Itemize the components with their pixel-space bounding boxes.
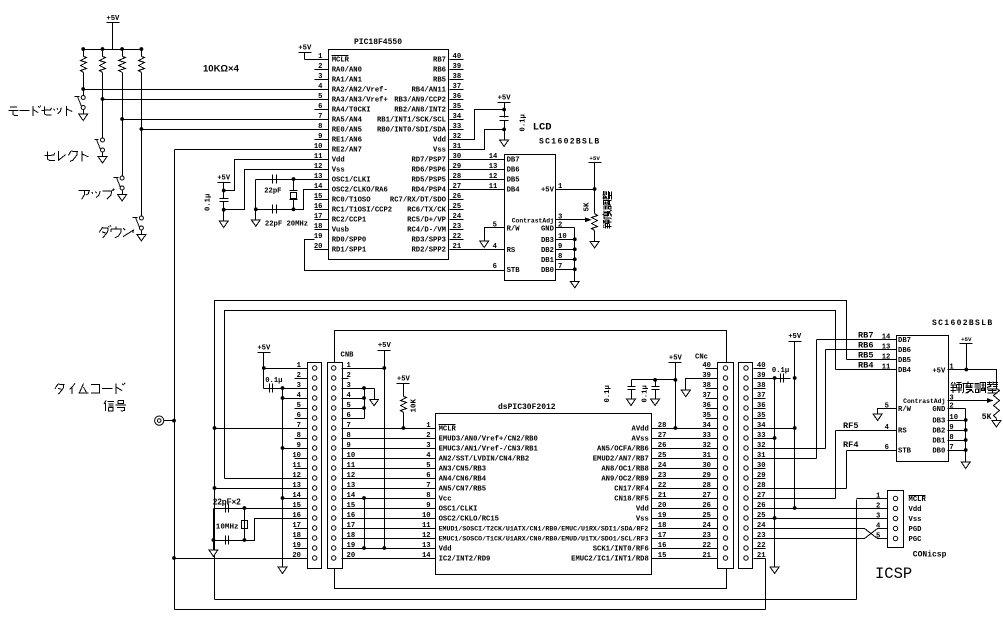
svg-text:7: 7 (426, 482, 430, 490)
svg-text:26: 26 (453, 193, 462, 201)
svg-text:RB7: RB7 (858, 331, 873, 341)
svg-text:CNB: CNB (341, 352, 355, 360)
svg-text:AN5/OCFA/RB6: AN5/OCFA/RB6 (597, 446, 649, 454)
svg-text:RB6: RB6 (433, 67, 446, 75)
svg-text:DB3: DB3 (541, 237, 554, 245)
svg-text:2: 2 (876, 503, 880, 511)
svg-text:2: 2 (426, 432, 430, 440)
svg-text:ICSP: ICSP (875, 565, 912, 583)
svg-text:+5V: +5V (298, 45, 312, 53)
svg-text:DB4: DB4 (898, 367, 912, 375)
svg-text:R/W: R/W (507, 225, 521, 233)
svg-text:10K: 10K (411, 398, 419, 412)
svg-text:32: 32 (702, 442, 711, 450)
svg-text:OSC2/CKLO/RC15: OSC2/CKLO/RC15 (439, 516, 499, 524)
svg-text:19: 19 (314, 233, 323, 241)
svg-text:GND: GND (541, 225, 555, 233)
svg-text:+5V: +5V (498, 95, 512, 103)
svg-text:DB6: DB6 (898, 347, 911, 355)
svg-text:DB0: DB0 (932, 448, 945, 456)
svg-text:3: 3 (318, 73, 322, 81)
svg-text:0.1μ: 0.1μ (205, 194, 213, 211)
svg-text:2: 2 (558, 222, 562, 230)
svg-text:33: 33 (702, 432, 711, 440)
svg-text:RF5: RF5 (843, 421, 858, 431)
svg-text:RB5: RB5 (858, 351, 873, 361)
svg-text:STB: STB (507, 267, 521, 275)
svg-text:Vdd: Vdd (909, 506, 922, 514)
svg-text:DB6: DB6 (507, 167, 520, 175)
svg-text:25: 25 (453, 203, 462, 211)
svg-text:9: 9 (318, 133, 322, 141)
svg-text:AN8/OC1/RB8: AN8/OC1/RB8 (601, 466, 648, 474)
svg-text:RE2/AN7: RE2/AN7 (332, 147, 362, 155)
svg-text:Vss: Vss (909, 516, 922, 524)
svg-text:DB1: DB1 (932, 438, 946, 446)
svg-text:28: 28 (702, 482, 711, 490)
svg-text:RB5: RB5 (433, 77, 446, 85)
svg-text:DB4: DB4 (507, 187, 521, 195)
svg-text:dsPIC30F2012: dsPIC30F2012 (498, 403, 556, 412)
svg-text:RD3/SPP3: RD3/SPP3 (411, 237, 446, 245)
svg-text:+5V: +5V (106, 15, 120, 23)
svg-text:3: 3 (426, 442, 430, 450)
svg-text:RC0/T1OSO: RC0/T1OSO (332, 197, 372, 205)
svg-text:Vdd: Vdd (433, 137, 446, 145)
svg-text:3: 3 (558, 214, 562, 222)
svg-text:MCLR: MCLR (332, 57, 350, 65)
svg-text:10: 10 (422, 512, 431, 520)
svg-text:AN5/CN7/RB5: AN5/CN7/RB5 (439, 486, 486, 494)
svg-text:14: 14 (422, 552, 431, 560)
svg-text:RB0/INT0/SDI/SDA: RB0/INT0/SDI/SDA (377, 127, 447, 135)
svg-text:26: 26 (702, 502, 711, 510)
svg-text:14: 14 (489, 153, 498, 161)
svg-text:35: 35 (453, 103, 462, 111)
svg-text:0.1μ: 0.1μ (520, 114, 528, 131)
svg-text:20: 20 (292, 552, 301, 560)
svg-text:3: 3 (876, 513, 880, 521)
svg-text:LCD: LCD (533, 121, 552, 133)
svg-text:+5V: +5V (788, 333, 802, 341)
svg-text:DB2: DB2 (541, 247, 554, 255)
svg-text:CN18/RF5: CN18/RF5 (614, 496, 649, 504)
svg-text:22: 22 (453, 233, 462, 241)
svg-text:0.1μ: 0.1μ (604, 385, 612, 402)
svg-text:AN3/CN5/RB3: AN3/CN5/RB3 (439, 466, 486, 474)
svg-text:RD7/PSP7: RD7/PSP7 (411, 157, 446, 165)
svg-text:OSC2/CLKO/RA6: OSC2/CLKO/RA6 (332, 187, 388, 195)
svg-text:Vusb: Vusb (332, 227, 349, 235)
svg-text:CONicsp: CONicsp (913, 550, 947, 559)
svg-text:12: 12 (489, 173, 498, 181)
svg-text:RC2/CCP1: RC2/CCP1 (332, 217, 367, 225)
svg-text:RE0/AN5: RE0/AN5 (332, 127, 362, 135)
svg-text:+5V: +5V (397, 376, 411, 384)
svg-text:RC5/D+/VP: RC5/D+/VP (407, 217, 447, 225)
svg-text:2: 2 (949, 402, 953, 410)
svg-text:RS: RS (898, 428, 907, 436)
svg-text:RS: RS (507, 247, 516, 255)
svg-text:14: 14 (882, 334, 891, 342)
svg-text:RD6/PSP6: RD6/PSP6 (411, 167, 446, 175)
svg-text:RD2/SPP2: RD2/SPP2 (411, 247, 446, 255)
svg-text:4: 4 (426, 452, 431, 460)
svg-text:22pF 20MHz: 22pF 20MHz (265, 221, 308, 229)
svg-text:RB6: RB6 (858, 341, 873, 351)
svg-text:5: 5 (426, 462, 430, 470)
svg-text:+5V: +5V (378, 342, 392, 350)
svg-text:EMUC1/SOSCO/T1CK/U1ARX/CN0/RB0: EMUC1/SOSCO/T1CK/U1ARX/CN0/RB0/EMUD/U1TX… (439, 536, 649, 543)
svg-text:AVss: AVss (632, 436, 649, 444)
svg-text:27: 27 (702, 492, 711, 500)
svg-text:33: 33 (453, 123, 462, 131)
svg-text:GND: GND (932, 406, 946, 414)
svg-text:0.1μ: 0.1μ (772, 367, 789, 375)
svg-text:31: 31 (702, 452, 711, 460)
svg-text:PGC: PGC (909, 536, 923, 544)
svg-text:12: 12 (422, 532, 431, 540)
svg-text:Vss: Vss (636, 516, 649, 524)
svg-text:EMUD1/SOSCI/T2CK/U1ATX/CN1/RB0: EMUD1/SOSCI/T2CK/U1ATX/CN1/RB0/EMUC/U1RX… (439, 526, 649, 533)
svg-text:RD0/SPP0: RD0/SPP0 (332, 237, 367, 245)
svg-text:11: 11 (882, 364, 891, 372)
svg-text:23: 23 (453, 223, 462, 231)
svg-text:+5V: +5V (257, 345, 271, 353)
svg-text:RB7: RB7 (433, 57, 446, 65)
svg-text:EMUD2/AN7/RB7: EMUD2/AN7/RB7 (593, 456, 649, 464)
svg-text:13: 13 (882, 344, 891, 352)
svg-text:13: 13 (422, 542, 431, 550)
svg-text:OSC1/CLKI: OSC1/CLKI (439, 506, 478, 514)
svg-text:DB3: DB3 (932, 418, 945, 426)
svg-text:RA0/AN0: RA0/AN0 (332, 67, 362, 75)
svg-text:Vss: Vss (332, 167, 345, 175)
svg-text:Vdd: Vdd (439, 546, 452, 554)
svg-text:+5V: +5V (589, 155, 600, 162)
svg-text:5: 5 (885, 402, 889, 410)
svg-text:1: 1 (949, 364, 954, 372)
svg-text:8: 8 (426, 492, 430, 500)
svg-text:36: 36 (453, 93, 462, 101)
svg-text:11: 11 (422, 522, 431, 530)
svg-text:Vdd: Vdd (332, 157, 345, 165)
svg-text:RD5/PSP5: RD5/PSP5 (411, 177, 446, 185)
svg-text:Vss: Vss (433, 147, 446, 155)
svg-text:PGD: PGD (909, 526, 923, 534)
svg-text:+5V: +5V (217, 174, 231, 182)
svg-text:AN2/SST/LVDIN/CN4/RB2: AN2/SST/LVDIN/CN4/RB2 (439, 456, 530, 464)
svg-text:RB4: RB4 (858, 361, 873, 371)
svg-text:RD1/SPP1: RD1/SPP1 (332, 247, 367, 255)
svg-text:RF4: RF4 (843, 440, 858, 450)
svg-text:+5V: +5V (541, 187, 555, 195)
svg-text:MCLR: MCLR (909, 496, 927, 504)
svg-text:0.1μ: 0.1μ (265, 377, 282, 385)
svg-text:EMUC3/AN1/Vref-/CN3/RB1: EMUC3/AN1/Vref-/CN3/RB1 (439, 446, 539, 454)
svg-text:22: 22 (702, 542, 711, 550)
svg-text:23: 23 (702, 532, 711, 540)
svg-text:MCLR: MCLR (439, 426, 457, 434)
svg-text:RD4/PSP4: RD4/PSP4 (411, 187, 446, 195)
svg-text:RA3/AN3/Vref+: RA3/AN3/Vref+ (332, 97, 388, 105)
svg-text:DB1: DB1 (541, 257, 555, 265)
svg-text:DB5: DB5 (898, 357, 911, 365)
svg-text:5: 5 (876, 533, 880, 541)
svg-text:AN4/CN6/RB4: AN4/CN6/RB4 (439, 476, 487, 484)
svg-text:ContrastAdj: ContrastAdj (512, 217, 554, 224)
svg-text:12: 12 (882, 354, 891, 362)
svg-text:CN17/RF4: CN17/RF4 (614, 486, 649, 494)
svg-text:+5V: +5V (961, 336, 972, 343)
svg-text:5: 5 (493, 222, 497, 230)
svg-text:21: 21 (702, 552, 711, 560)
svg-text:2: 2 (318, 63, 322, 71)
svg-text:RC1/T1OSI/CCP2: RC1/T1OSI/CCP2 (332, 207, 392, 215)
svg-text:+5V: +5V (669, 354, 683, 362)
svg-text:10MHz: 10MHz (216, 523, 239, 531)
svg-text:RA2/AN2/Vref-: RA2/AN2/Vref- (332, 87, 388, 95)
svg-text:38: 38 (453, 73, 462, 81)
svg-text:11: 11 (489, 183, 498, 191)
svg-text:18: 18 (314, 223, 323, 231)
svg-text:IC2/INT2/RD9: IC2/INT2/RD9 (439, 556, 491, 564)
svg-text:39: 39 (453, 63, 462, 71)
svg-text:RB3/AN9/CCP2: RB3/AN9/CCP2 (394, 97, 446, 105)
svg-text:24: 24 (702, 522, 711, 530)
svg-text:17: 17 (314, 213, 323, 221)
svg-text:EMUC2/IC1/INT1/RD8: EMUC2/IC1/INT1/RD8 (571, 556, 649, 564)
svg-text:6: 6 (493, 263, 497, 271)
svg-text:AN9/OC2/RB9: AN9/OC2/RB9 (601, 476, 648, 484)
svg-text:RB4/AN11: RB4/AN11 (411, 87, 446, 95)
svg-text:DB0: DB0 (541, 267, 554, 275)
svg-text:SCK1/INT0/RF6: SCK1/INT0/RF6 (593, 546, 649, 554)
svg-text:RA4/T0CKI: RA4/T0CKI (332, 107, 371, 115)
svg-text:1: 1 (876, 493, 881, 501)
svg-text:DB2: DB2 (932, 428, 945, 436)
svg-text:SC1602BSLB: SC1602BSLB (539, 138, 601, 147)
svg-text:30: 30 (702, 462, 711, 470)
svg-text:5K: 5K (982, 413, 992, 422)
svg-text:+5V: +5V (932, 367, 946, 375)
svg-text:0.1μ: 0.1μ (642, 385, 650, 402)
svg-text:1: 1 (426, 422, 431, 430)
svg-text:CNc: CNc (695, 354, 708, 362)
svg-text:20: 20 (314, 243, 323, 251)
svg-text:22pF: 22pF (264, 187, 281, 195)
svg-text:34: 34 (702, 422, 711, 430)
svg-text:OSC1/CLKI: OSC1/CLKI (332, 177, 371, 185)
svg-text:16: 16 (314, 203, 323, 211)
svg-text:34: 34 (453, 113, 462, 121)
svg-text:STB: STB (898, 448, 912, 456)
svg-text:37: 37 (453, 83, 462, 91)
svg-text:3: 3 (949, 394, 953, 402)
svg-text:24: 24 (453, 213, 462, 221)
svg-text:RA5/AN4: RA5/AN4 (332, 117, 363, 125)
svg-text:13: 13 (489, 163, 498, 171)
svg-text:RB1/INT1/SCK/SCL: RB1/INT1/SCK/SCL (377, 117, 446, 125)
svg-text:RA1/AN1: RA1/AN1 (332, 77, 363, 85)
svg-text:SC1602BSLB: SC1602BSLB (932, 319, 994, 328)
svg-text:RE1/AN6: RE1/AN6 (332, 137, 362, 145)
svg-text:4: 4 (876, 523, 881, 531)
svg-text:6: 6 (426, 472, 430, 480)
svg-text:29: 29 (702, 472, 711, 480)
svg-text:ContrastAdj: ContrastAdj (903, 398, 945, 405)
svg-text:EMUD3/AN0/Vref+/CN2/RB0: EMUD3/AN0/Vref+/CN2/RB0 (439, 436, 538, 444)
svg-text:PIC18F4550: PIC18F4550 (354, 38, 402, 47)
svg-text:RB2/AN8/INT2: RB2/AN8/INT2 (394, 107, 446, 115)
svg-text:R/W: R/W (898, 406, 912, 414)
svg-text:RC4/D-/VM: RC4/D-/VM (407, 227, 446, 235)
svg-text:AVdd: AVdd (632, 426, 649, 434)
svg-text:DB7: DB7 (898, 337, 911, 345)
svg-text:22pF×2: 22pF×2 (213, 497, 241, 506)
svg-text:9: 9 (426, 502, 430, 510)
svg-text:RC6/TX/CK: RC6/TX/CK (407, 207, 447, 215)
svg-text:Vcc: Vcc (439, 496, 452, 504)
svg-text:10KΩ×4: 10KΩ×4 (203, 64, 240, 75)
svg-text:40: 40 (453, 53, 462, 61)
svg-text:5K: 5K (584, 202, 592, 212)
svg-text:RC7/RX/DT/SDO: RC7/RX/DT/SDO (390, 197, 447, 205)
svg-text:DB5: DB5 (507, 177, 520, 185)
svg-text:DB7: DB7 (507, 157, 520, 165)
svg-text:6: 6 (318, 103, 322, 111)
svg-text:Vdd: Vdd (636, 506, 649, 514)
svg-text:15: 15 (314, 193, 323, 201)
svg-text:25: 25 (702, 512, 711, 520)
